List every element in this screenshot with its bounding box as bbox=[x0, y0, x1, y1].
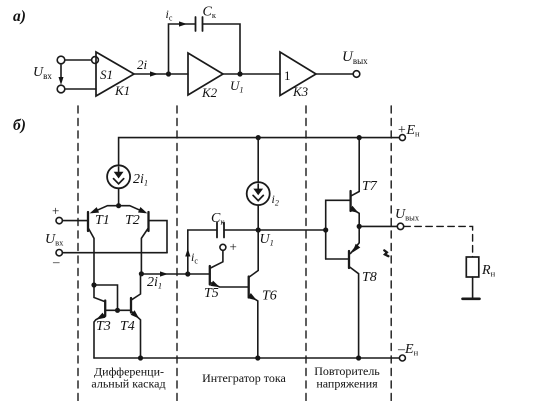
polarity arrow between terminals bbox=[60, 65, 62, 80]
U1 node dot bbox=[256, 227, 261, 232]
T6 collector bbox=[249, 230, 258, 277]
T3 collector bbox=[94, 285, 105, 302]
small mark near T8 bbox=[384, 250, 388, 256]
wire top input to K1 bbox=[65, 59, 92, 61]
svg-text:К3: К3 bbox=[292, 84, 309, 99]
svg-text:К1: К1 bbox=[114, 83, 130, 98]
T5 emitter bbox=[210, 283, 248, 288]
svg-text:+Eн: +Eн bbox=[397, 123, 420, 139]
wire bottom input to K1 bbox=[65, 88, 96, 90]
svg-text:Uвх: Uвх bbox=[45, 232, 64, 248]
transistor T6 bbox=[248, 277, 250, 298]
wire i2 to U1 bbox=[257, 205, 259, 230]
T2 emitter wire bbox=[119, 206, 145, 213]
output wire bbox=[359, 225, 397, 227]
dashed boundary line 4 bbox=[390, 106, 392, 401]
svg-text:Rн: Rн bbox=[481, 263, 496, 279]
+E rail bbox=[119, 138, 400, 166]
T8 base wire bbox=[326, 258, 349, 260]
transistor T8 bbox=[348, 251, 350, 268]
node A dot bbox=[166, 71, 171, 76]
ground bbox=[463, 297, 480, 300]
capacitor Ck (a) bbox=[195, 17, 197, 31]
current source i2 bbox=[257, 138, 259, 183]
svg-text:+: + bbox=[230, 239, 237, 254]
svg-text:2i1: 2i1 bbox=[133, 172, 148, 188]
input bubble on K1 edge bbox=[92, 57, 99, 64]
svg-text:Т5: Т5 bbox=[204, 286, 219, 301]
dashed load wire bbox=[404, 226, 473, 257]
op-amp K1 bbox=[96, 52, 134, 96]
dashed boundary line 3 bbox=[305, 106, 307, 401]
svg-text:iс: iс bbox=[166, 7, 173, 23]
svg-text:Uвх: Uвх bbox=[33, 65, 52, 81]
svg-text:i2: i2 bbox=[272, 192, 279, 208]
svg-text:Т2: Т2 bbox=[125, 213, 140, 228]
transistor T4 bbox=[130, 298, 132, 313]
arrow 2i bbox=[150, 71, 158, 76]
T8 emitter bbox=[351, 226, 360, 253]
arrow ic (a) bbox=[179, 21, 187, 26]
svg-text:Cк: Cк bbox=[211, 211, 225, 227]
T8 collector bbox=[349, 267, 359, 359]
svg-text:альный каскад: альный каскад bbox=[91, 377, 165, 391]
rail junction T7 bbox=[357, 135, 362, 140]
T2 collector bbox=[141, 229, 148, 274]
T1 collector bbox=[89, 229, 95, 286]
transistor T1 bbox=[87, 212, 89, 231]
ic branch wire bbox=[188, 230, 217, 274]
resistor Rn bbox=[466, 257, 479, 277]
transistor T5 bbox=[209, 266, 211, 285]
T7 emitter bbox=[351, 209, 359, 227]
input + terminal (b) bbox=[56, 217, 62, 223]
input terminal top (a) bbox=[57, 56, 65, 64]
wire K3 out bbox=[316, 73, 353, 75]
svg-text:Т4: Т4 bbox=[120, 319, 135, 334]
T4 collector bbox=[131, 274, 141, 300]
rail junction i2 bbox=[256, 135, 261, 140]
output terminal (a) bbox=[353, 71, 360, 78]
svg-text:2i: 2i bbox=[137, 57, 148, 72]
svg-text:Т7: Т7 bbox=[362, 179, 378, 194]
node ic dot bbox=[185, 271, 190, 276]
T7 base wire bbox=[326, 200, 351, 259]
op-amp K3 bbox=[280, 52, 316, 96]
base tie node dot bbox=[115, 308, 120, 313]
+E terminal bbox=[399, 135, 405, 141]
svg-text:1: 1 bbox=[284, 68, 291, 83]
node T1-T3 dot bbox=[91, 282, 96, 287]
rail junction T4 bbox=[138, 355, 143, 360]
svg-text:U1: U1 bbox=[230, 78, 244, 95]
ic arrow up bbox=[185, 249, 190, 257]
svg-text:а): а) bbox=[13, 8, 26, 25]
T6 emitter bbox=[249, 296, 258, 359]
U1 tie node dot bbox=[323, 227, 328, 232]
input terminal bottom (a) bbox=[57, 85, 65, 93]
output node dot bbox=[357, 224, 362, 229]
base tie wire T3-T4 bbox=[105, 309, 131, 311]
svg-text:–: – bbox=[52, 254, 60, 269]
resistor bottom wire bbox=[472, 277, 474, 298]
T4 emitter bbox=[131, 311, 141, 358]
svg-text:+: + bbox=[52, 203, 59, 218]
U1 wire bbox=[224, 229, 326, 231]
dashed boundary line 1 bbox=[77, 106, 79, 401]
node U1 dot (a) bbox=[237, 71, 242, 76]
T5 + terminal bbox=[220, 244, 226, 250]
T7 collector bbox=[351, 138, 359, 196]
wire source to emitters node bbox=[118, 188, 120, 205]
svg-text:Т3: Т3 bbox=[96, 319, 111, 334]
transistor T2 bbox=[147, 212, 149, 231]
node emitters dot bbox=[116, 203, 121, 208]
svg-text:К2: К2 bbox=[201, 85, 218, 100]
capacitor Ck (b) bbox=[216, 223, 218, 238]
Uvyx terminal (b) bbox=[397, 223, 403, 229]
T1 emitter wire bbox=[93, 206, 119, 213]
feedback wire up-left (a) bbox=[169, 24, 195, 74]
T3 emitter bbox=[94, 315, 105, 359]
svg-text:Т6: Т6 bbox=[262, 289, 277, 304]
wire 2i1 to T5 base bbox=[141, 273, 209, 275]
svg-text:S1: S1 bbox=[100, 67, 113, 82]
input - terminal (b) bbox=[56, 250, 62, 256]
arrow 2i1 bbox=[160, 271, 168, 276]
svg-text:2i1: 2i1 bbox=[147, 275, 162, 291]
rail junction T8 bbox=[356, 355, 361, 360]
-E terminal bbox=[399, 355, 405, 361]
svg-text:напряжения: напряжения bbox=[316, 377, 378, 391]
T5 collector bbox=[211, 250, 223, 268]
transistor T3 bbox=[104, 301, 106, 317]
svg-text:Интегратор тока: Интегратор тока bbox=[202, 371, 286, 385]
svg-text:б): б) bbox=[13, 117, 26, 134]
current source 2i1 bbox=[107, 165, 130, 188]
minus input wire bbox=[62, 252, 167, 254]
svg-text:Uвых: Uвых bbox=[342, 49, 368, 66]
op-amp K2 bbox=[188, 53, 223, 95]
svg-text:Т1: Т1 bbox=[95, 213, 110, 228]
feedback wire right side (a) bbox=[203, 24, 241, 72]
transistor T7 bbox=[349, 191, 351, 211]
T1 base wire bbox=[63, 220, 89, 222]
node 2i1 dot bbox=[139, 271, 144, 276]
T2 base wire bbox=[149, 221, 168, 253]
svg-text:Т8: Т8 bbox=[362, 270, 377, 285]
svg-text:–Eн: –Eн bbox=[397, 342, 419, 358]
-E rail bbox=[94, 357, 399, 359]
svg-text:iс: iс bbox=[191, 250, 198, 266]
svg-text:U1: U1 bbox=[260, 232, 274, 248]
wire K1 out to node bbox=[134, 73, 188, 75]
svg-text:Cк: Cк bbox=[203, 5, 217, 21]
svg-text:Uвых: Uвых bbox=[395, 207, 420, 223]
rail junction T6 bbox=[255, 355, 260, 360]
dashed boundary line 2 bbox=[176, 106, 178, 401]
mirror tie wire bbox=[94, 285, 118, 310]
wire K2 out bbox=[223, 73, 280, 75]
